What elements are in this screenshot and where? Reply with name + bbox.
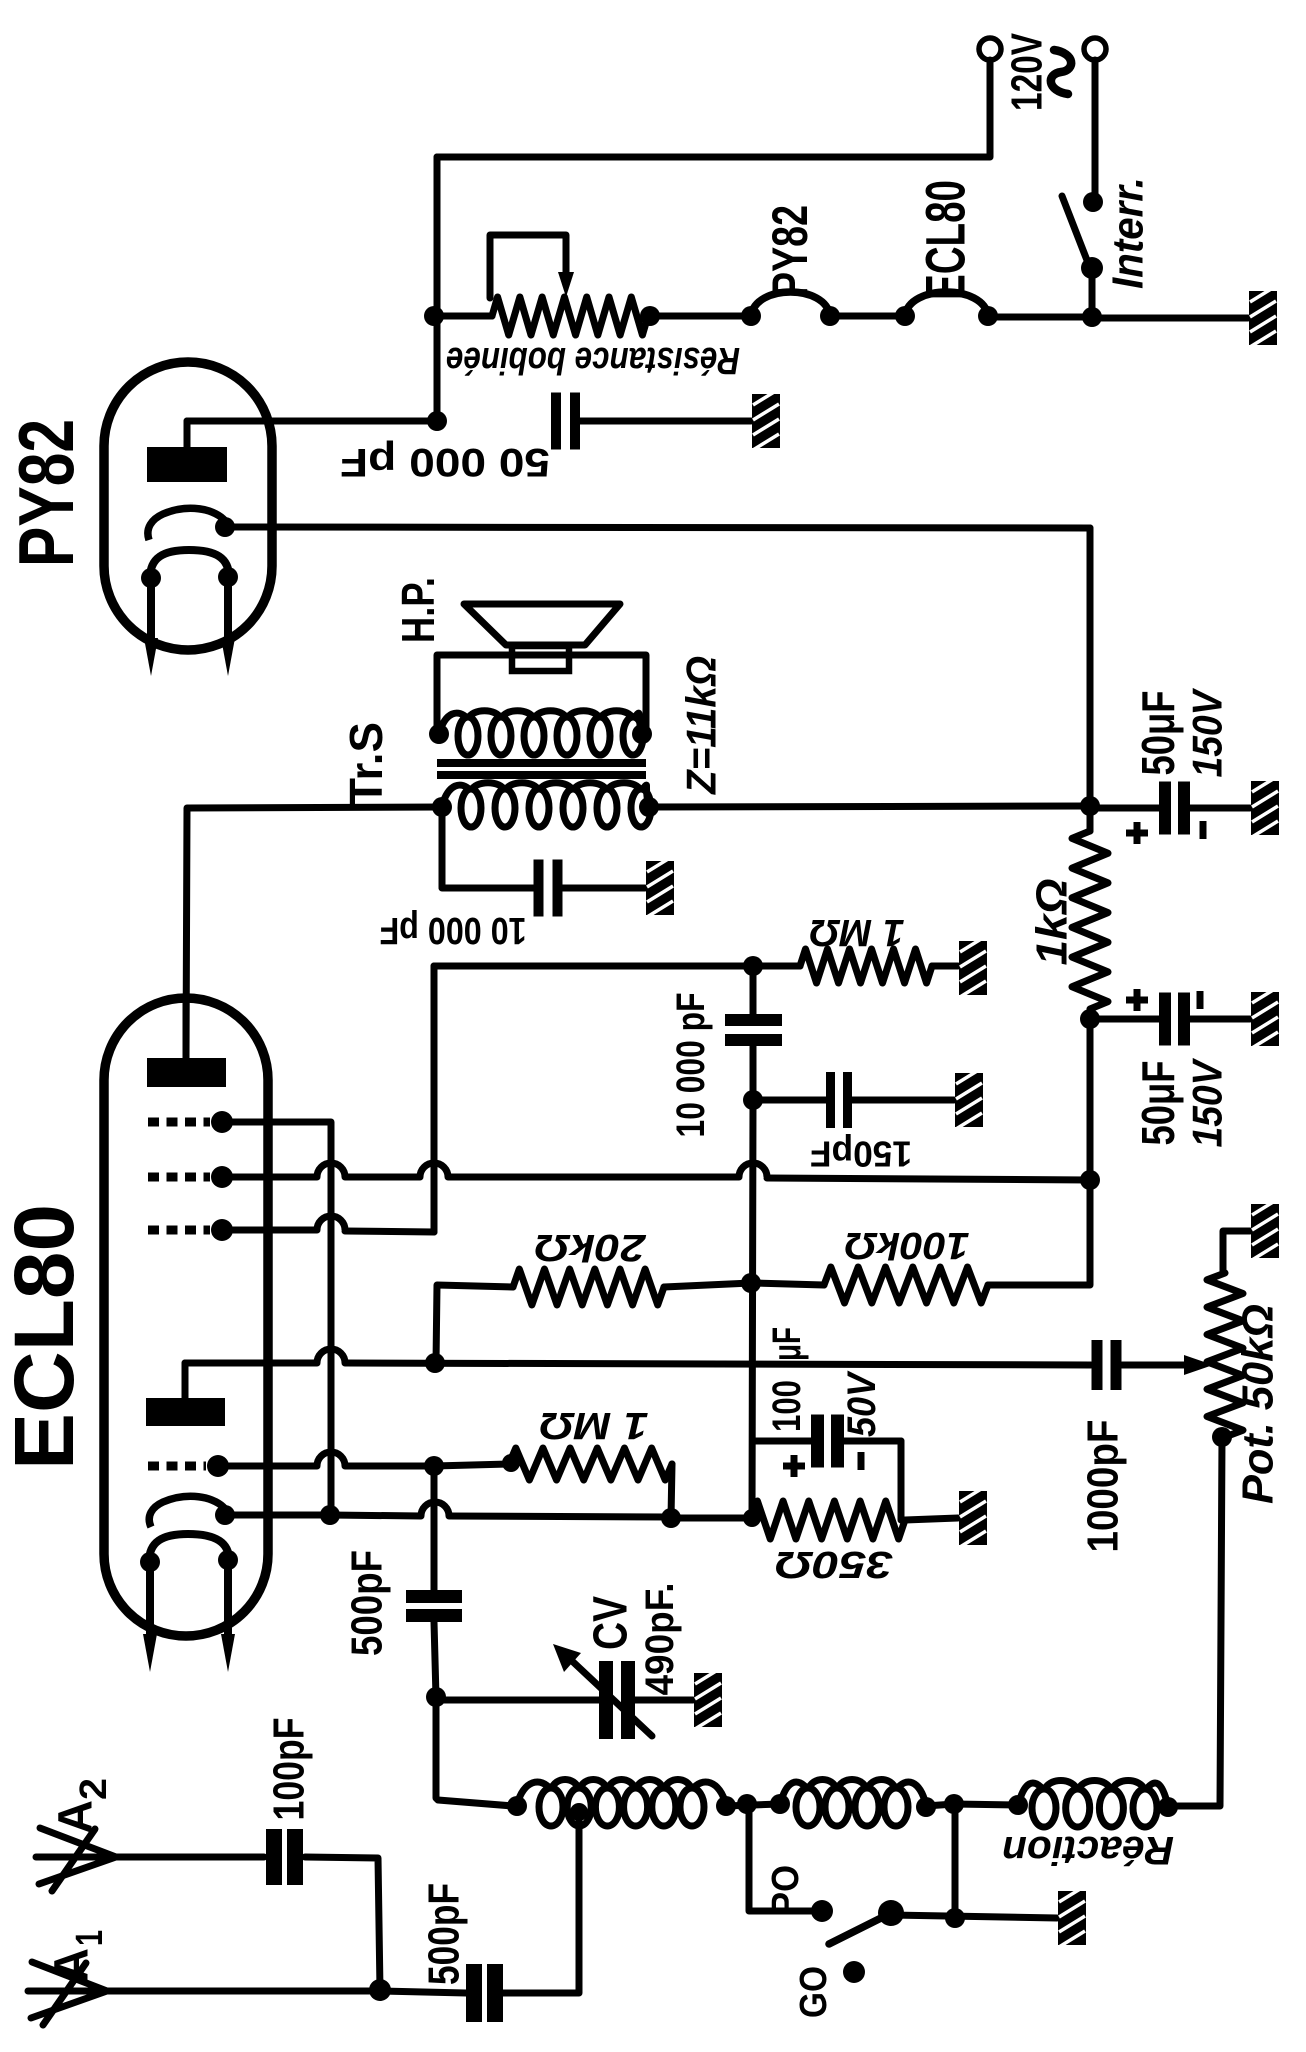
wire cathode hop over 435 vertical bbox=[421, 1502, 449, 1516]
wire grid3 lead segment2 bbox=[345, 1231, 434, 1232]
wire cathode to 350 bbox=[671, 1515, 751, 1522]
node cathode/grid1-vertical junction bbox=[320, 1505, 340, 1525]
potentiometer Pot 50kOhm bbox=[1207, 1273, 1243, 1437]
wire primary left to pentode anode corner bbox=[186, 807, 442, 1058]
wire grid hop over grid1 vertical bbox=[317, 1452, 345, 1466]
ground CV bbox=[694, 1673, 722, 1727]
wire PY82 anode to node bbox=[187, 418, 437, 425]
capacitor 50000pF bbox=[551, 393, 561, 450]
wire 50uF second to ground bbox=[1190, 1016, 1250, 1023]
node 350 left bbox=[743, 1509, 761, 1527]
wire 1k bottom to 50uF second bbox=[1090, 1016, 1159, 1023]
wire grid2 lead segment3 bbox=[448, 1174, 739, 1181]
wire junction down to switch bbox=[952, 1804, 959, 1918]
wire 350 right to ground bbox=[905, 1518, 958, 1520]
wire grid vertical lower bbox=[434, 1622, 436, 1697]
wire grid3 lead segment1 bbox=[230, 1227, 317, 1234]
wire 500pF to coil tap bbox=[503, 1820, 579, 1993]
wire resistor bus node bbox=[424, 306, 444, 326]
node A1/A2 junction bbox=[369, 1979, 391, 2001]
svg-text:Résistance bobinée: Résistance bobinée bbox=[446, 339, 740, 381]
wire 1k bottom down to grid2 node bbox=[1087, 1019, 1094, 1180]
svg-text:Interr.: Interr. bbox=[1104, 177, 1153, 289]
node coil1/PO junction bbox=[737, 1794, 757, 1814]
wire resistor to PY82 heater bbox=[650, 313, 751, 320]
svg-text:1 MΩ: 1 MΩ bbox=[540, 1404, 649, 1446]
svg-text:A: A bbox=[50, 1800, 103, 1834]
ground 50uF second bbox=[1251, 992, 1279, 1046]
svg-text:150V: 150V bbox=[1184, 688, 1231, 778]
wire grid2 hop over 753 vertical bbox=[739, 1163, 767, 1177]
inductor Reaction coil bbox=[1032, 1789, 1056, 1827]
polarity + 100uF bbox=[783, 1463, 805, 1470]
tube PY82 heater curve bbox=[150, 550, 229, 578]
tube ECL80 pentode grid2 dashes bbox=[148, 1173, 210, 1182]
wire coil1 to coil2 bbox=[726, 1804, 780, 1806]
transformer Tr.S primary coil bbox=[461, 789, 481, 827]
wire cap to 150pF node bbox=[750, 1046, 757, 1100]
capacitor 50uF first bbox=[1159, 782, 1171, 835]
ground switch bbox=[1058, 1891, 1086, 1945]
tube ECL80 triode cathode bbox=[149, 1496, 226, 1527]
node triode grid bbox=[207, 1455, 229, 1477]
capacitor 100uF bbox=[811, 1415, 824, 1468]
wire wiper lead bbox=[1122, 1362, 1186, 1369]
node speaker frame right bbox=[632, 724, 652, 744]
node 1M to cathode bbox=[661, 1508, 681, 1528]
switch lever pivot bbox=[878, 1900, 904, 1926]
tube PY82 envelope bbox=[104, 362, 272, 650]
heater ECL80 node right bbox=[978, 306, 998, 326]
svg-text:Pot. 50kΩ: Pot. 50kΩ bbox=[1234, 1304, 1283, 1504]
wire cap to ground bbox=[577, 418, 751, 425]
svg-text:Réaction: Réaction bbox=[1002, 1828, 1174, 1872]
wire cathode segment3 bbox=[449, 1516, 671, 1517]
wire node A horizontal bbox=[434, 963, 753, 970]
inductor tuning coil1 bbox=[539, 1788, 563, 1826]
ground pot top bbox=[1251, 1204, 1279, 1258]
wire triode grid segment1 bbox=[226, 1463, 317, 1470]
wire grid1 lead bbox=[230, 1122, 331, 1516]
node reaction right bbox=[1158, 1797, 1178, 1817]
polarity - first 50uF bbox=[1200, 821, 1207, 839]
tap arrow head bbox=[558, 272, 574, 297]
resistor 1MOhm triode bbox=[509, 1448, 672, 1480]
node coil1 right bbox=[716, 1796, 736, 1816]
wire grid2 hop over grid3 vertical bbox=[420, 1163, 448, 1177]
svg-text:50 000 pF: 50 000 pF bbox=[340, 440, 550, 484]
wire grid3 hop over grid1 vertical bbox=[317, 1216, 345, 1230]
wire CV to ground bbox=[635, 1697, 693, 1704]
switch GO contact bbox=[843, 1961, 865, 1983]
wire heater link bbox=[830, 313, 905, 320]
capacitor 100pF bbox=[266, 1829, 282, 1885]
capacitor 100uF box top left bbox=[753, 1438, 811, 1445]
wire triode anode lead up bbox=[182, 1363, 189, 1398]
inductor coil2 PO bbox=[796, 1788, 820, 1826]
tube ECL80 heater leg left tip bbox=[143, 1634, 157, 1672]
node ECL80 heater left bbox=[140, 1552, 160, 1572]
tube ECL80 pentode grid1 dashes bbox=[148, 1118, 210, 1127]
wire node A to cap bbox=[750, 966, 757, 1014]
node grid2 right bbox=[1080, 1170, 1100, 1190]
polarity + second 50uF bbox=[1126, 997, 1148, 1004]
wire 150pF lead bbox=[755, 1097, 826, 1104]
speaker horn bbox=[464, 604, 620, 645]
tube ECL80 envelope bbox=[104, 998, 268, 1636]
wire bus to resistor bbox=[437, 313, 492, 320]
svg-text:50μF: 50μF bbox=[1132, 1061, 1184, 1146]
speaker voice coil bbox=[512, 646, 569, 671]
node 150pF junction bbox=[743, 1090, 763, 1110]
wire primary right to B+ node bbox=[649, 806, 1090, 807]
node coil tap bbox=[570, 1803, 588, 1821]
ground 10000pF first bbox=[646, 861, 674, 915]
node pot bottom bbox=[1212, 1427, 1232, 1447]
polarity + first 50uF bbox=[1126, 830, 1148, 837]
tube ECL80 heater leg right bbox=[224, 1560, 232, 1638]
wire grid3 vertical up to node A bbox=[431, 966, 438, 1232]
wire pot top corner bbox=[1223, 1231, 1250, 1273]
wire heater bus to ground bbox=[1092, 315, 1248, 322]
wire grid2 L to 100k bbox=[988, 1180, 1090, 1285]
heater PY82 bump bbox=[751, 292, 830, 316]
node PY82 heater right bbox=[218, 567, 238, 587]
switch Interr lever bbox=[1062, 196, 1090, 268]
svg-text:150pF: 150pF bbox=[810, 1134, 912, 1175]
svg-text:Z=11kΩ: Z=11kΩ bbox=[678, 656, 725, 795]
node coil2/switch junction bbox=[944, 1794, 964, 1814]
wire to 10000pF cap bbox=[442, 885, 536, 892]
wire anode hop over grid1 vertical bbox=[317, 1349, 345, 1363]
antenna A1 symbol bbox=[32, 1962, 107, 1991]
tube PY82 cathode bbox=[148, 508, 227, 540]
wire cathode segment1 bbox=[227, 1512, 330, 1519]
terminal 120V left bbox=[979, 38, 1001, 60]
wire 1M pentode lead left bbox=[753, 963, 800, 970]
wire right vertical to B+ node bbox=[1087, 528, 1094, 806]
wire 50uF to ground bbox=[1190, 805, 1250, 812]
wire grid2 lead segment1 bbox=[230, 1174, 317, 1181]
svg-text:1kΩ: 1kΩ bbox=[1028, 879, 1077, 966]
wire grid2 lead segment4 bbox=[767, 1178, 1090, 1180]
transformer Tr.S core bbox=[437, 759, 646, 767]
svg-text:500pF: 500pF bbox=[343, 1550, 392, 1656]
wire PY82 anode lead bbox=[184, 421, 191, 447]
wire coil2 to junction bbox=[926, 1804, 954, 1806]
node 20k 100k junction bbox=[741, 1273, 761, 1293]
wire 150pF to ground bbox=[852, 1097, 954, 1104]
switch GO lever bbox=[829, 1913, 891, 1944]
ground heater bus right bbox=[1249, 291, 1277, 345]
speaker frame bbox=[437, 655, 646, 727]
node speaker frame left bbox=[429, 724, 449, 744]
node resistor right bbox=[640, 306, 660, 326]
node anode/20k junction bbox=[425, 1353, 445, 1373]
node transformer primary right bbox=[639, 797, 659, 817]
wire lever to ground bbox=[891, 1915, 1057, 1918]
terminal 120V right bbox=[1084, 38, 1106, 60]
wire tuned top to coil bbox=[436, 1697, 513, 1806]
tube ECL80 heater leg left bbox=[146, 1562, 154, 1638]
svg-text:100: 100 bbox=[765, 1380, 809, 1432]
capacitor 1000pF bbox=[1092, 1340, 1103, 1390]
wire 1k top lead bbox=[1087, 808, 1094, 831]
node PY82 cathode bbox=[215, 517, 235, 537]
svg-text:CV: CV bbox=[585, 1596, 638, 1650]
ground 1M pentode bbox=[959, 941, 987, 995]
node triode cathode bbox=[215, 1505, 235, 1525]
svg-text:PO: PO bbox=[765, 1865, 807, 1915]
wire junction down to PO bbox=[749, 1804, 812, 1911]
wire grid2 hop over grid1 vertical bbox=[317, 1163, 345, 1177]
node ECL80 heater right bbox=[218, 1550, 238, 1570]
wire 753 vertical grid2 to cathode row bbox=[752, 1100, 753, 1518]
wire 1M triode right corner bbox=[671, 1464, 672, 1518]
polarity - 100uF bbox=[858, 1452, 865, 1470]
node 1k bottom bbox=[1080, 1009, 1100, 1029]
wire 100uF box top right bbox=[844, 1438, 901, 1445]
variable cap arrow head bbox=[553, 1644, 581, 1672]
svg-text:GO: GO bbox=[793, 1966, 835, 2018]
wire A2 to 100pF bbox=[116, 1854, 264, 1861]
svg-text:120V: 120V bbox=[1003, 33, 1052, 111]
polarity - second 50uF bbox=[1197, 991, 1204, 1009]
svg-text:H.P.: H.P. bbox=[392, 577, 444, 643]
wire pentode anode lead up bbox=[183, 998, 190, 1058]
svg-text:1 MΩ: 1 MΩ bbox=[810, 911, 905, 953]
wire grid2 lead segment2 bbox=[345, 1174, 420, 1181]
node grid3 bbox=[211, 1219, 233, 1241]
capacitor 50uF second bbox=[1159, 993, 1171, 1046]
svg-text:50μF: 50μF bbox=[1132, 691, 1184, 776]
wire pot bottom to reaction coil bbox=[1174, 1437, 1222, 1806]
wire PY82 cathode long wire to right bbox=[227, 527, 1090, 528]
wire cathode segment2 bbox=[330, 1515, 421, 1516]
AC symbol bbox=[1051, 50, 1071, 94]
svg-text:150V: 150V bbox=[1184, 1058, 1231, 1148]
wire 1M pentode lead right bbox=[932, 963, 958, 970]
heater ECL80 node left bbox=[895, 306, 915, 326]
resistor 1MOhm pentode bbox=[800, 949, 932, 983]
svg-text:ECL80: ECL80 bbox=[0, 1204, 91, 1470]
svg-text:PY82: PY82 bbox=[2, 419, 90, 567]
svg-text:Tr.S: Tr.S bbox=[340, 722, 392, 806]
ground 50000pF bbox=[752, 394, 780, 448]
svg-text:490pF.: 490pF. bbox=[638, 1583, 682, 1696]
svg-text:1: 1 bbox=[69, 1930, 111, 1946]
wire switch to heater bus bbox=[1089, 268, 1096, 317]
wire CV lead bbox=[436, 1697, 599, 1704]
antenna A2 symbol bbox=[40, 1828, 116, 1857]
svg-text:1000pF: 1000pF bbox=[1079, 1420, 1128, 1553]
node anode/cap junction bbox=[427, 411, 447, 431]
ground 50uF first bbox=[1251, 781, 1279, 835]
ground 150pF bbox=[955, 1073, 983, 1127]
capacitor 500pF antenna bbox=[466, 1964, 482, 2022]
variable cap arrow line bbox=[571, 1660, 652, 1736]
node A junction bbox=[743, 956, 763, 976]
tap box over resistor bbox=[490, 235, 566, 298]
switch PO contact bbox=[811, 1900, 833, 1922]
node grid1 bbox=[211, 1111, 233, 1133]
node PY82 heater left bbox=[141, 568, 161, 588]
wire primary left down bbox=[439, 807, 446, 887]
wire 20k lead right bbox=[664, 1283, 751, 1287]
wire vertical x437 from top wire to anode node bbox=[434, 157, 441, 421]
resistor 350Ohm bbox=[751, 1501, 905, 1539]
wire A1 to junction bbox=[107, 1988, 380, 1995]
wire 1M triode left lead bbox=[434, 1464, 509, 1466]
wire heater to switch node bbox=[988, 314, 1092, 321]
wire B+ to 50uF bbox=[1090, 805, 1159, 812]
node heater bus / switch bbox=[1082, 307, 1102, 327]
node switch wire junction bbox=[945, 1908, 965, 1928]
wire 100k lead left bbox=[753, 1283, 824, 1285]
heater PY82 node left bbox=[741, 306, 761, 326]
node B+ bbox=[1080, 796, 1100, 816]
tube ECL80 heater leg right tip bbox=[221, 1634, 235, 1672]
heater ECL80 bump bbox=[905, 292, 988, 316]
node grid/1M junction bbox=[424, 1456, 444, 1476]
resistor 100kOhm bbox=[824, 1267, 988, 1303]
capacitor 500pF grid bbox=[406, 1590, 462, 1603]
node 1M triode left bbox=[502, 1454, 520, 1472]
tube PY82 heater leg right tip bbox=[221, 638, 235, 676]
svg-text:10 000 pF: 10 000 pF bbox=[380, 909, 527, 951]
pot wiper arrow bbox=[1184, 1355, 1213, 1375]
svg-text:10 000 pF: 10 000 pF bbox=[669, 993, 713, 1138]
svg-text:ECL80: ECL80 bbox=[914, 180, 977, 300]
wire 100pF to corner bbox=[305, 1857, 380, 1990]
svg-text:PY82: PY82 bbox=[762, 205, 818, 297]
heater PY82 node right bbox=[820, 306, 840, 326]
tube ECL80 triode anode bbox=[146, 1398, 225, 1426]
node transformer primary left bbox=[432, 797, 452, 817]
svg-text:20kΩ: 20kΩ bbox=[535, 1226, 647, 1268]
svg-text:500pF: 500pF bbox=[420, 1883, 469, 1985]
wire triode anode segment1 bbox=[185, 1360, 317, 1367]
svg-text:100kΩ: 100kΩ bbox=[845, 1224, 970, 1266]
switch Interr contact bottom bbox=[1081, 257, 1103, 279]
ground cathode 350 bbox=[959, 1491, 987, 1545]
svg-text:μF: μF bbox=[765, 1327, 809, 1361]
node coil2 left bbox=[770, 1794, 790, 1814]
node reaction left bbox=[1008, 1795, 1028, 1815]
wire triode anode segment2 bbox=[345, 1363, 1091, 1365]
tube ECL80 pentode anode bbox=[147, 1058, 226, 1087]
tube PY82 heater leg right bbox=[224, 577, 232, 642]
resistor Resistance bobinee bbox=[492, 297, 648, 335]
wire 120V right terminal down to switch bbox=[1092, 60, 1099, 196]
resistor 20kOhm bbox=[513, 1269, 664, 1305]
wire triode grid segment2 bbox=[345, 1463, 434, 1470]
svg-text:2: 2 bbox=[73, 1778, 115, 1800]
resistor 1kOhm bbox=[1072, 831, 1108, 1009]
wire 10000pF to ground bbox=[560, 885, 645, 892]
switch Interr contact top bbox=[1083, 192, 1103, 212]
capacitor 10000pF first bbox=[534, 860, 544, 917]
node coil2 right bbox=[916, 1797, 936, 1817]
tube ECL80 pentode grid3 dashes bbox=[148, 1226, 210, 1235]
wire 20k lead left corner bbox=[436, 1285, 513, 1363]
svg-text:50V: 50V bbox=[840, 1370, 884, 1437]
capacitor 10000pF second bbox=[725, 1014, 782, 1026]
node grid2 bbox=[211, 1166, 233, 1188]
transformer Tr.S secondary coil bbox=[458, 717, 478, 755]
tube PY82 heater leg left tip bbox=[144, 638, 158, 676]
capacitor CV 490pF bbox=[599, 1661, 613, 1739]
wire 100uF box right side bbox=[898, 1441, 905, 1520]
wire junction to 500pF bbox=[380, 1991, 466, 1993]
node tuned circuit top bbox=[426, 1687, 446, 1707]
wire 120V left terminal down and to resistor bus bbox=[437, 60, 990, 157]
tube PY82 anode bbox=[147, 447, 227, 482]
svg-text:A: A bbox=[46, 1948, 99, 1982]
tube ECL80 triode grid dashes bbox=[148, 1462, 206, 1471]
wire grid vertical upper bbox=[431, 1466, 438, 1590]
svg-text:100pF: 100pF bbox=[265, 1718, 314, 1821]
wire junction to reaction coil bbox=[954, 1804, 1018, 1805]
capacitor 150pF bbox=[826, 1072, 835, 1128]
svg-text:350Ω: 350Ω bbox=[775, 1543, 893, 1585]
tube PY82 heater leg left bbox=[147, 578, 155, 642]
node coil1 left bbox=[507, 1796, 527, 1816]
tube ECL80 heater curve bbox=[149, 1534, 229, 1562]
